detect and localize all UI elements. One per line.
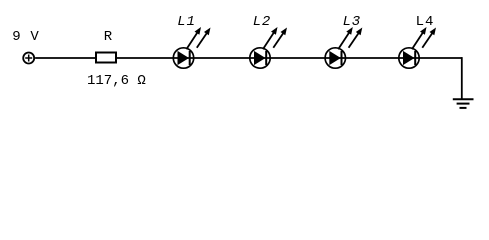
ground	[453, 99, 474, 108]
wire main horizontal	[35, 57, 462, 59]
LED L2	[250, 27, 287, 68]
svg-text:9 V: 9 V	[12, 29, 39, 45]
svg-text:L2: L2	[253, 14, 271, 30]
wire vertical to ground	[461, 57, 463, 99]
resistor R	[96, 53, 116, 63]
LED L3	[325, 27, 362, 68]
svg-text:L1: L1	[177, 14, 195, 30]
svg-text:L3: L3	[343, 14, 361, 30]
svg-text:117,6 Ω: 117,6 Ω	[87, 73, 146, 89]
svg-text:R: R	[104, 29, 113, 45]
LED L1	[173, 27, 210, 68]
LED L4	[399, 27, 436, 68]
source V1 9V	[23, 53, 34, 64]
svg-text:L4: L4	[416, 14, 435, 30]
